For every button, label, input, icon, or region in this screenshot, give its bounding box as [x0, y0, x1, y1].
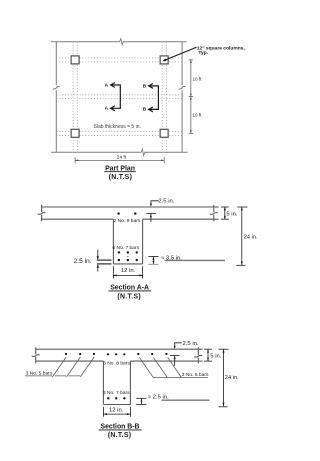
dimension 2.5 in. (bottom cover A-A, left)	[97, 260, 112, 264]
svg-text:(N.T.S): (N.T.S)	[117, 294, 141, 301]
column top-right	[160, 56, 168, 64]
leader 2.5 in. (top cover A-A)	[151, 201, 159, 204]
beam stem B-B	[103, 361, 130, 404]
dimension approx 2.5 in. (B-B)	[136, 398, 146, 404]
svg-text:3 No. 8 bars: 3 No. 8 bars	[103, 360, 130, 366]
bent bars left (3 No. 5)	[25, 357, 95, 377]
dimension 24 ft	[75, 157, 164, 163]
slab right edge (plan)	[181, 42, 183, 153]
svg-text:2.5 in.: 2.5 in.	[158, 199, 174, 205]
slab outline A-A	[42, 205, 214, 222]
label: 12" square columns, Typ.	[197, 45, 246, 56]
bar-level tick with up arrow (top cover B-B)	[170, 355, 180, 366]
dimension approx 3.5 in. (A-A)	[148, 256, 158, 264]
svg-text:3 No. 7 bars: 3 No. 7 bars	[103, 390, 130, 396]
beam line pair, bottom column line	[56, 131, 182, 135]
slab top edge (plan)	[51, 41, 187, 43]
break top edge	[118, 39, 125, 45]
dimension 5 in. (B-B slab)	[199, 349, 212, 361]
beam line pair, right column line	[162, 42, 166, 153]
svg-text:12 in.: 12 in.	[121, 268, 136, 274]
break right end A-A	[210, 213, 218, 215]
bar-level tick with up arrow (top cover A-A)	[146, 214, 156, 223]
break right edge	[179, 86, 186, 89]
svg-text:10 ft: 10 ft	[193, 77, 203, 82]
leader to column (12" square columns, Typ.)	[162, 47, 196, 61]
svg-text:5 in.: 5 in.	[226, 212, 237, 218]
bent bars right (3 No. 5)	[139, 357, 207, 377]
dimension 12 in. (A-A stem)	[113, 266, 142, 278]
break left end A-A	[38, 213, 46, 215]
break left edge	[53, 86, 60, 89]
svg-text:6 No. 7 bars: 6 No. 7 bars	[112, 245, 139, 251]
dimension 10 ft (upper span)	[189, 60, 193, 133]
column bottom-right	[160, 129, 168, 137]
dimension 24 in. (B-B)	[218, 349, 228, 407]
svg-text:Slab thickness = 5 in.: Slab thickness = 5 in.	[94, 124, 141, 130]
section cut A-A	[105, 82, 121, 110]
svg-text:5 in.: 5 in.	[210, 354, 221, 360]
top bars B-B (slab)	[65, 353, 168, 356]
svg-text:2.5 in.: 2.5 in.	[183, 341, 199, 347]
dimension 12 in. (B-B stem)	[103, 407, 130, 417]
svg-text:2.5 in.: 2.5 in.	[74, 258, 92, 265]
break left end B-B	[32, 355, 40, 357]
svg-text:3 No. 5 bars: 3 No. 5 bars	[182, 372, 209, 378]
svg-text:24 in.: 24 in.	[225, 375, 239, 381]
beam line pair, middle beam	[56, 95, 182, 99]
slab outline B-B	[36, 347, 199, 363]
svg-text:Section B-B: Section B-B	[100, 423, 139, 430]
dimension 24 in. (A-A)	[236, 207, 247, 265]
leader 2.5 in. (top cover B-B)	[175, 343, 182, 347]
svg-text:Section A-A: Section A-A	[110, 284, 149, 291]
column top-left	[71, 56, 79, 64]
svg-text:24 in.: 24 in.	[244, 234, 258, 240]
slab bottom edge (plan)	[51, 151, 188, 153]
svg-text:3 No. 5 bars: 3 No. 5 bars	[26, 371, 53, 377]
bottom bars A-A (6 No. 7)	[118, 251, 138, 261]
beam line pair, top column line	[56, 58, 182, 62]
hidden beam lines (dashed)	[56, 42, 182, 153]
bottom bars B-B (3 No. 7)	[107, 397, 126, 399]
svg-text:12 in.: 12 in.	[109, 408, 124, 414]
centroid tick A-A	[127, 255, 129, 257]
beam stem A-A	[113, 219, 142, 264]
svg-text:2 No. 8 bars: 2 No. 8 bars	[114, 218, 141, 224]
beam line pair, left column line	[73, 42, 77, 153]
break bottom edge	[139, 149, 146, 155]
svg-text:24 ft: 24 ft	[117, 155, 127, 161]
reference line under 3.5 in. label	[165, 259, 226, 261]
section cut B-B	[143, 83, 159, 112]
top bars A-A (2 No. 8)	[117, 212, 136, 214]
slab left edge (plan)	[55, 42, 57, 153]
svg-text:10 ft: 10 ft	[193, 112, 203, 117]
svg-text:(N.T.S): (N.T.S)	[108, 432, 132, 439]
svg-text:Typ.: Typ.	[198, 50, 208, 56]
dimension 5 in. (A-A slab)	[215, 207, 229, 219]
column bottom-left	[71, 129, 79, 137]
break right end B-B	[194, 355, 202, 357]
reference line under 2.5 in. label	[162, 399, 210, 401]
svg-text:(N.T.S): (N.T.S)	[109, 174, 133, 181]
